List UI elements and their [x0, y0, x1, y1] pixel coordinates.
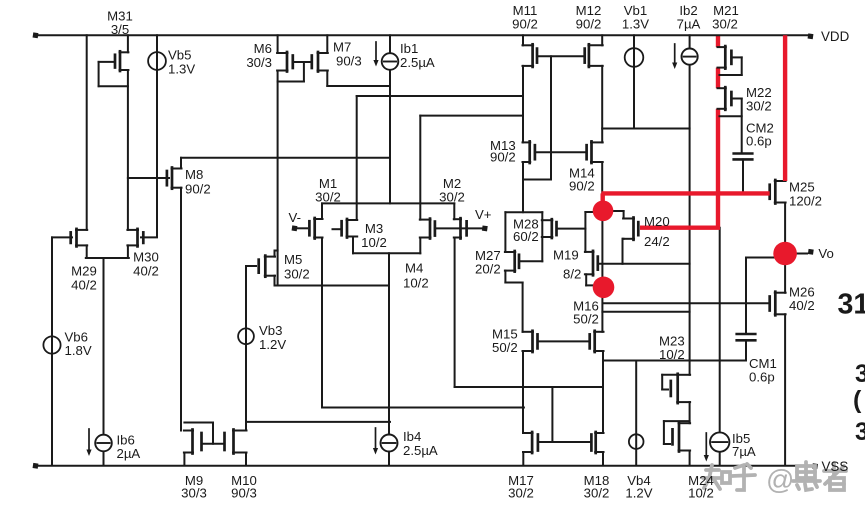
svg-text:90/3: 90/3 [336, 54, 362, 69]
svg-text:24/2: 24/2 [644, 234, 670, 249]
svg-text:0.6p: 0.6p [746, 134, 772, 149]
svg-text:M20: M20 [644, 214, 670, 229]
svg-text:1.8V: 1.8V [65, 343, 92, 358]
svg-text:120/2: 120/2 [789, 194, 822, 209]
svg-text:40/2: 40/2 [789, 298, 815, 313]
svg-text:M8: M8 [185, 167, 203, 182]
svg-text:M7: M7 [333, 40, 351, 55]
svg-text:90/2: 90/2 [185, 182, 211, 197]
svg-text:Vb5: Vb5 [168, 48, 191, 63]
svg-text:Ib4: Ib4 [403, 429, 421, 444]
svg-text:M25: M25 [789, 180, 815, 195]
svg-text:8/2: 8/2 [563, 267, 581, 282]
svg-text:M5: M5 [284, 252, 302, 267]
svg-text:30/2: 30/2 [746, 99, 772, 114]
svg-text:Ib1: Ib1 [400, 41, 418, 56]
svg-text:10/2: 10/2 [688, 486, 714, 501]
svg-text:90/2: 90/2 [512, 16, 538, 31]
svg-text:7µA: 7µA [677, 16, 701, 31]
svg-text:90/3: 90/3 [231, 486, 257, 501]
svg-text:90/2: 90/2 [576, 16, 602, 31]
svg-text:@: @ [766, 464, 794, 495]
svg-text:90/2: 90/2 [569, 179, 595, 194]
svg-text:30/2: 30/2 [584, 486, 610, 501]
svg-text:2.5µA: 2.5µA [400, 55, 435, 70]
svg-text:30/2: 30/2 [439, 190, 465, 205]
svg-text:2.5µA: 2.5µA [403, 443, 438, 458]
svg-text:1.2V: 1.2V [259, 337, 286, 352]
svg-text:30/3: 30/3 [181, 486, 207, 501]
svg-text:3/5: 3/5 [111, 22, 129, 37]
svg-text:M4: M4 [405, 261, 423, 276]
svg-text:3: 3 [855, 418, 865, 446]
svg-text:M30: M30 [133, 250, 159, 265]
svg-text:M3: M3 [365, 221, 383, 236]
svg-text:40/2: 40/2 [71, 278, 97, 293]
svg-text:1.2V: 1.2V [625, 486, 652, 501]
svg-text:V-: V- [289, 210, 301, 225]
svg-text:60/2: 60/2 [513, 229, 539, 244]
svg-text:10/2: 10/2 [403, 276, 429, 291]
svg-text:Vb3: Vb3 [259, 323, 282, 338]
svg-text:20/2: 20/2 [475, 262, 501, 277]
svg-text:30/2: 30/2 [508, 486, 534, 501]
svg-text:3: 3 [855, 360, 865, 388]
svg-text:Vo: Vo [818, 246, 833, 261]
svg-text:2µA: 2µA [117, 446, 141, 461]
svg-text:30/2: 30/2 [284, 267, 310, 282]
svg-text:10/2: 10/2 [659, 347, 685, 362]
svg-text:VSS: VSS [822, 459, 849, 474]
svg-text:31: 31 [838, 289, 865, 321]
svg-text:30/2: 30/2 [712, 16, 738, 31]
svg-text:1.3V: 1.3V [168, 62, 195, 77]
svg-text:M6: M6 [254, 41, 272, 56]
svg-text:10/2: 10/2 [361, 235, 387, 250]
svg-text:50/2: 50/2 [492, 340, 518, 355]
svg-text:VDD: VDD [821, 29, 850, 44]
svg-text:0.6p: 0.6p [749, 370, 775, 385]
svg-text:V+: V+ [475, 207, 492, 222]
svg-text:M29: M29 [71, 264, 97, 279]
svg-text:40/2: 40/2 [133, 264, 159, 279]
svg-text:30/2: 30/2 [315, 190, 341, 205]
svg-text:M19: M19 [553, 248, 579, 263]
svg-text:50/2: 50/2 [573, 312, 599, 327]
svg-text:1.3V: 1.3V [622, 16, 649, 31]
svg-text:(: ( [853, 386, 862, 414]
svg-text:30/3: 30/3 [246, 55, 272, 70]
svg-text:7µA: 7µA [732, 444, 756, 459]
svg-text:90/2: 90/2 [490, 150, 516, 165]
